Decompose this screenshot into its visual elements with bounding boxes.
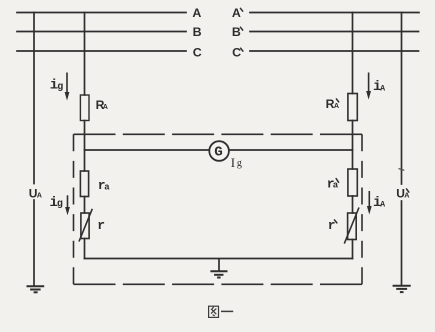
svg-text:g: g — [57, 199, 63, 210]
label RA — [96, 98, 108, 112]
dashed measuring-loop box left edge — [73, 134, 75, 284]
wire bridge bottom — [85, 258, 353, 260]
ground left outer — [27, 286, 45, 292]
svg-text:a: a — [104, 182, 110, 192]
svg-text:B: B — [232, 25, 241, 39]
wire bus A right segment — [250, 12, 419, 14]
svg-text:g: g — [57, 82, 63, 93]
label Ig (galvanometer current) — [231, 155, 242, 170]
label RA' — [326, 97, 340, 111]
tick on right outer line — [399, 169, 405, 171]
svg-text:I: I — [231, 155, 235, 170]
wire bus C right segment — [250, 50, 419, 52]
resistor ra' — [348, 169, 357, 196]
label ig (top left) — [50, 78, 63, 94]
svg-text:A: A — [334, 101, 339, 110]
svg-text:r: r — [97, 218, 105, 233]
label r' — [328, 218, 337, 233]
varistor r — [79, 209, 92, 242]
wire bus A left segment — [17, 12, 186, 14]
svg-text:C: C — [232, 46, 241, 60]
label ra — [98, 178, 110, 193]
svg-text:B: B — [193, 25, 202, 39]
current arrow ig (top left) — [65, 73, 70, 101]
resistor RA — [80, 95, 89, 121]
wire r to bridge bottom — [84, 239, 86, 259]
caption 图一 (drawn strokes) — [209, 306, 234, 317]
varistor r' — [344, 208, 359, 244]
svg-text:A: A — [192, 6, 201, 20]
label phase B' — [232, 25, 243, 39]
resistor RA' — [348, 94, 357, 121]
label ig (lower left) — [50, 195, 63, 211]
wire left outer drop lower (UA label to ground) — [33, 200, 35, 286]
wire right outer drop upper (bus A to UA' label) — [401, 13, 403, 185]
svg-text:A: A — [37, 190, 42, 199]
label phase C' — [232, 46, 243, 60]
resistor ra — [80, 171, 88, 197]
svg-text:A: A — [232, 6, 241, 20]
svg-text:A: A — [103, 102, 108, 111]
svg-text:G: G — [214, 145, 223, 161]
label iA (lower right) — [373, 195, 385, 211]
wire left branch drop from bus A to RA — [84, 13, 86, 96]
label phase A' — [232, 6, 243, 20]
wire bridge top right (galvanometer to right branch) — [229, 149, 353, 151]
current arrow iA (top right) — [366, 73, 371, 100]
wire RA to node (bridge top left) — [84, 121, 86, 172]
svg-text:g: g — [237, 158, 242, 169]
wire bus B left segment — [17, 31, 186, 33]
wire right branch drop from bus A to RA' — [352, 13, 354, 94]
current arrow iA (lower right) — [367, 191, 372, 215]
dashed measuring-loop box top edge — [74, 133, 363, 135]
wire RA' to ra' — [352, 121, 354, 170]
label UA — [29, 186, 42, 200]
wire ra to r — [84, 197, 86, 214]
svg-text:A: A — [380, 85, 385, 94]
wire ra' to r' — [352, 196, 354, 213]
wire r' to bridge bottom — [352, 240, 354, 259]
label iA (top right) — [373, 79, 385, 95]
galvanometer U1 (G) — [209, 141, 229, 161]
dashed measuring-loop box bottom edge — [74, 283, 363, 285]
label ra' — [327, 176, 339, 191]
dashed measuring-loop box right edge — [361, 134, 363, 284]
wire bus B right segment — [250, 31, 419, 33]
ground right outer — [393, 286, 411, 292]
ground center (bridge) — [210, 259, 227, 278]
current arrow ig (lower left) — [65, 195, 70, 215]
wire left outer drop upper (node A to UA label) — [33, 13, 35, 184]
svg-text:C: C — [193, 46, 202, 60]
svg-text:A: A — [380, 200, 385, 209]
label UA' — [396, 187, 409, 201]
wire bridge top left (node to galvanometer) — [85, 149, 210, 151]
wire bus C left segment — [17, 50, 186, 52]
wire right outer drop lower (UA' label to ground) — [401, 201, 403, 286]
